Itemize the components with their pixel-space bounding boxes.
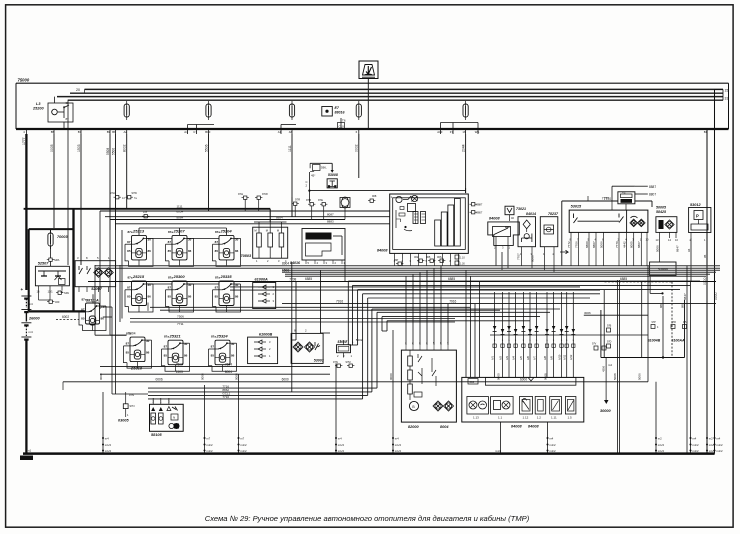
svg-text:86: 86 xyxy=(148,249,152,253)
connector pair under 53000 xyxy=(335,364,342,367)
svg-text:SPA: SPA xyxy=(54,258,60,262)
ground 30000 xyxy=(605,358,607,400)
svg-text:8054: 8054 xyxy=(177,210,184,214)
diode unit 58105 xyxy=(150,404,184,431)
svg-text:3006: 3006 xyxy=(584,311,591,315)
enclosure wire around 53015 xyxy=(562,200,618,202)
svg-text:86: 86 xyxy=(235,295,239,299)
svg-text:1.5: 1.5 xyxy=(568,416,573,420)
svg-text:30: 30 xyxy=(66,101,70,105)
wires 53015 pins up xyxy=(587,196,589,201)
svg-text:A/2: A/2 xyxy=(498,356,502,360)
svg-text:0005: 0005 xyxy=(50,144,54,152)
connector 03005 xyxy=(123,404,128,409)
svg-text:87: 87 xyxy=(164,345,168,349)
svg-text:6885: 6885 xyxy=(448,277,455,281)
svg-text:61000B: 61000B xyxy=(259,332,273,336)
wire from 52507 down xyxy=(38,290,40,300)
svg-text:53012: 53012 xyxy=(690,203,701,207)
svg-text:A/8: A/8 xyxy=(543,356,547,360)
connector SPA1 xyxy=(47,258,54,261)
svg-text:97R: 97R xyxy=(672,321,677,324)
svg-text:m2: m2 xyxy=(709,437,713,441)
svg-text:7916: 7916 xyxy=(336,299,343,303)
svg-text:m1/2: m1/2 xyxy=(105,443,112,447)
svg-text:2044: 2044 xyxy=(461,144,465,152)
svg-text:5506: 5506 xyxy=(204,144,208,152)
svg-text:31: 31 xyxy=(725,97,729,101)
relay 25335 xyxy=(213,274,241,312)
svg-text:87: 87 xyxy=(215,286,219,290)
svg-text:7772: 7772 xyxy=(567,241,571,248)
thick enclosure around 52507 cluster xyxy=(29,228,74,230)
svg-text:1.2: 1.2 xyxy=(537,416,542,420)
svg-text:84008: 84008 xyxy=(377,249,388,253)
svg-text:m1/2: m1/2 xyxy=(338,449,345,453)
svg-text:25213: 25213 xyxy=(132,229,145,234)
svg-text:38111A: 38111A xyxy=(86,299,99,303)
lamp 58425 xyxy=(665,220,674,229)
svg-text:7506: 7506 xyxy=(177,314,184,318)
left vertical pair x68 xyxy=(67,100,69,265)
relay row link wires xyxy=(94,265,96,335)
svg-text:25204: 25204 xyxy=(220,229,233,234)
unit 53000 small box xyxy=(659,238,661,262)
svg-text:78237: 78237 xyxy=(548,212,559,216)
svg-text:m1/2: m1/2 xyxy=(395,449,402,453)
fan symbol xyxy=(340,197,350,208)
svg-text:5500: 5500 xyxy=(111,148,115,155)
fuse 70003 xyxy=(48,230,53,249)
switch lamp cluster 52007 xyxy=(75,261,116,287)
svg-text:m4: m4 xyxy=(395,437,399,441)
svg-text:00S: 00S xyxy=(437,255,442,259)
svg-text:94: 94 xyxy=(687,248,691,252)
svg-text:7604: 7604 xyxy=(225,362,232,366)
wire 8002 from bus xyxy=(126,134,128,209)
wire 7904 row xyxy=(95,334,127,336)
svg-text:A/6: A/6 xyxy=(526,356,530,360)
socket 1.12 xyxy=(520,397,533,415)
svg-text:1.13: 1.13 xyxy=(473,416,479,420)
svg-text:20: 20 xyxy=(76,88,80,92)
svg-text:6000: 6000 xyxy=(282,378,289,382)
svg-text:97M: 97M xyxy=(346,360,351,364)
svg-text:B8: B8 xyxy=(112,130,116,134)
svg-text:86: 86 xyxy=(231,354,235,358)
svg-text:8884: 8884 xyxy=(276,215,283,219)
wires under bundle xyxy=(230,286,580,288)
svg-text:m4: m4 xyxy=(692,437,696,441)
svg-text:97W: 97W xyxy=(132,191,138,195)
svg-text:N: N xyxy=(173,416,175,420)
long vertical 296 xyxy=(295,282,297,341)
svg-text:53008: 53008 xyxy=(328,173,338,177)
svg-text:97B: 97B xyxy=(607,325,612,328)
fuse F3 on bus xyxy=(289,101,294,120)
svg-text:A/10: A/10 xyxy=(557,354,561,360)
svg-text:30: 30 xyxy=(146,339,150,343)
connector group 97H xyxy=(242,196,249,199)
svg-text:A10: A10 xyxy=(437,130,442,134)
svg-text:97H: 97H xyxy=(238,192,243,196)
svg-text:8887: 8887 xyxy=(649,185,656,189)
wires into connector left corner xyxy=(465,270,467,377)
svg-text:m1/2: m1/2 xyxy=(658,443,665,447)
wire 7916 xyxy=(282,303,716,305)
svg-text:97H: 97H xyxy=(110,191,115,195)
resistor module 70803 xyxy=(253,227,288,258)
main ground bus bottom xyxy=(23,452,715,455)
wire 6002 dashed xyxy=(56,319,79,321)
svg-text:50005: 50005 xyxy=(656,206,667,210)
svg-text:86: 86 xyxy=(188,249,192,253)
svg-text:1111: 1111 xyxy=(177,205,183,209)
svg-text:5006: 5006 xyxy=(655,245,659,252)
connector squares bottom left of block xyxy=(594,346,598,350)
long vertical 345 down xyxy=(344,260,346,282)
lamp 53015 b xyxy=(638,219,646,227)
main harness bundle center xyxy=(95,265,720,267)
wire 1503 from bus xyxy=(80,134,82,265)
svg-text:8008: 8008 xyxy=(531,255,535,262)
svg-text:SPA: SPA xyxy=(64,291,69,295)
svg-text:87: 87 xyxy=(215,240,219,244)
relay 25204 xyxy=(213,229,241,267)
svg-text:97E: 97E xyxy=(318,198,323,202)
svg-text:85: 85 xyxy=(126,351,130,355)
svg-text:16: 16 xyxy=(462,130,466,134)
svg-text:84008: 84008 xyxy=(528,425,539,429)
bus pin ticks and labels xyxy=(25,129,27,134)
wire column 292 to module xyxy=(291,197,293,217)
wire 358 stub xyxy=(358,134,360,140)
relay 25324 xyxy=(209,333,237,371)
wire 7506 7711 under row2 xyxy=(150,306,470,308)
connector group mid 295 xyxy=(292,202,299,205)
svg-text:30: 30 xyxy=(231,342,235,346)
82000 pin labels top xyxy=(405,345,407,350)
svg-text:7711: 7711 xyxy=(177,322,184,326)
svg-text:8807: 8807 xyxy=(637,241,641,248)
svg-text:53003: 53003 xyxy=(314,359,324,363)
bus rail 31 xyxy=(68,99,723,101)
svg-text:1503: 1503 xyxy=(176,370,183,374)
wire 0005 from bus xyxy=(53,134,55,228)
svg-text:25207: 25207 xyxy=(173,229,186,234)
lamp 53003 a xyxy=(293,342,303,352)
connector row under 84008 xyxy=(417,259,424,262)
svg-text:4306: 4306 xyxy=(602,365,606,372)
svg-text:82000: 82000 xyxy=(408,425,419,429)
connector STB small xyxy=(142,215,149,218)
wires 8887 8807 to x3 xyxy=(635,185,648,187)
wire branches bottom 82000 xyxy=(405,276,407,345)
svg-text:0008: 0008 xyxy=(543,373,547,380)
svg-text:58425: 58425 xyxy=(656,210,667,214)
svg-text:P: P xyxy=(696,214,699,219)
diode block 61000B xyxy=(248,337,278,364)
svg-text:8847: 8847 xyxy=(683,293,687,300)
svg-text:0000: 0000 xyxy=(714,292,718,300)
svg-text:7706: 7706 xyxy=(574,241,578,248)
svg-text:15: 15 xyxy=(725,89,729,93)
svg-text:7708: 7708 xyxy=(289,278,296,282)
svg-text:1506: 1506 xyxy=(282,268,289,272)
bus rail 30 xyxy=(85,88,724,90)
svg-text:7716: 7716 xyxy=(222,395,229,399)
svg-text:×3: ×3 xyxy=(622,190,626,194)
svg-text:m1/2: m1/2 xyxy=(716,443,723,447)
svg-text:m1/2: m1/2 xyxy=(240,443,247,447)
wires below sensors 84014 78237 xyxy=(521,252,523,266)
wire 7770 right xyxy=(611,201,613,210)
svg-text:87: 87 xyxy=(126,342,130,346)
unit x3 above 53015 xyxy=(618,192,635,204)
svg-text:87: 87 xyxy=(168,286,172,290)
verticals below 53015 to bundle xyxy=(570,238,572,266)
svg-text:0000: 0000 xyxy=(496,373,500,380)
svg-text:m1/2: m1/2 xyxy=(105,449,112,453)
svg-text:84008: 84008 xyxy=(511,425,522,429)
svg-text:30: 30 xyxy=(235,283,239,287)
svg-text:0006: 0006 xyxy=(156,378,163,382)
svg-text:6885: 6885 xyxy=(620,277,627,281)
lamp in 52007 right xyxy=(104,268,114,278)
svg-text:86: 86 xyxy=(148,295,152,299)
connector pair 8887 8807 right of 84008 xyxy=(470,203,477,206)
svg-text:A4: A4 xyxy=(184,130,188,134)
control unit 84008 main box xyxy=(390,194,469,253)
svg-text:A/5: A/5 xyxy=(519,356,523,360)
svg-text:T6: T6 xyxy=(342,119,346,123)
svg-text:m4: m4 xyxy=(716,437,720,441)
svg-text:m1/2: m1/2 xyxy=(692,443,699,447)
long vertical 291.8 xyxy=(291,262,293,392)
svg-text:5002: 5002 xyxy=(356,338,363,342)
lamp 53015 a xyxy=(630,219,638,227)
svg-text:25324: 25324 xyxy=(216,333,229,338)
svg-text:M: M xyxy=(255,229,257,233)
svg-text:M: M xyxy=(277,229,279,233)
svg-text:A/1: A/1 xyxy=(490,356,494,360)
svg-text:5008: 5008 xyxy=(613,373,617,380)
relay 25215 xyxy=(125,274,153,312)
wire elbow below 53000 xyxy=(649,276,651,294)
svg-text:0000: 0000 xyxy=(389,373,393,380)
82000 internals resistors xyxy=(408,356,413,366)
thick wire elbow into 38111A xyxy=(72,209,74,312)
fuse F5 on bus xyxy=(206,101,211,120)
svg-text:87: 87 xyxy=(127,240,131,244)
svg-text:86: 86 xyxy=(235,249,239,253)
svg-text:97N: 97N xyxy=(333,360,338,364)
wires 1111 8054 labels xyxy=(100,210,390,212)
svg-text:m1/2: m1/2 xyxy=(658,449,665,453)
switch 73021 xyxy=(505,206,514,215)
svg-text:F7: F7 xyxy=(450,130,454,134)
svg-text:+: + xyxy=(21,287,24,292)
tick T6 xyxy=(340,118,342,129)
svg-text:m7: m7 xyxy=(240,437,244,441)
svg-text:320: 320 xyxy=(55,300,60,304)
bus rail 15 xyxy=(57,96,723,98)
socket 1.11 xyxy=(550,397,562,415)
verticals center-left to relay rows xyxy=(109,230,111,335)
relay 25213 xyxy=(125,229,153,267)
svg-text:97D: 97D xyxy=(607,341,612,344)
wire 8884 xyxy=(110,219,345,221)
svg-text:8904: 8904 xyxy=(282,262,289,266)
svg-text:26000: 26000 xyxy=(28,317,40,321)
svg-text:m2: m2 xyxy=(658,437,662,441)
connector pair 97H4 97W7 left xyxy=(114,196,121,199)
svg-text:8002: 8002 xyxy=(123,144,127,152)
connector panel 84008 bottom xyxy=(462,377,584,422)
svg-text:85: 85 xyxy=(215,249,219,253)
svg-text:6100AA: 6100AA xyxy=(671,339,685,343)
relay 25300 xyxy=(166,274,194,312)
svg-text:B9: B9 xyxy=(107,130,111,134)
svg-text:85: 85 xyxy=(168,249,172,253)
84008 pin row xyxy=(394,253,396,258)
svg-text:005: 005 xyxy=(426,255,431,259)
svg-text:97N: 97N xyxy=(130,404,135,408)
connector 908 top xyxy=(368,199,375,202)
wires below 84008 to bundle xyxy=(394,259,396,266)
svg-text:85: 85 xyxy=(81,317,85,321)
wire 612 vertical xyxy=(611,186,613,201)
wire stub 97H verticals xyxy=(244,199,246,211)
svg-text:888: 888 xyxy=(680,303,684,308)
wires top of relays to bundle xyxy=(138,228,140,235)
svg-text:86: 86 xyxy=(146,351,150,355)
wire 2044 from bus xyxy=(465,134,467,193)
svg-text:7707: 7707 xyxy=(517,253,521,260)
sensor wire column with diodes xyxy=(494,292,496,377)
wire 3006 right of column xyxy=(584,314,648,316)
m-ticks bottom xyxy=(102,444,104,446)
wire right verticals 687-691 xyxy=(686,266,688,454)
fuse F4 on bus xyxy=(124,101,129,120)
wires below relay 84008b xyxy=(495,246,497,266)
svg-text:25321: 25321 xyxy=(169,333,182,338)
svg-text:6000: 6000 xyxy=(520,378,527,382)
thermo sensor 53008 xyxy=(310,162,332,164)
svg-text:87: 87 xyxy=(168,240,172,244)
fuse F7 on bus xyxy=(463,101,468,120)
long vertical 320.5 xyxy=(320,270,322,333)
svg-text:85: 85 xyxy=(168,295,172,299)
svg-text:8883: 8883 xyxy=(327,220,334,224)
svg-text:85: 85 xyxy=(215,295,219,299)
svg-text:Схема № 29: Ручное управление: Схема № 29: Ручное управление автономног… xyxy=(205,514,530,523)
svg-text:002: 002 xyxy=(414,255,419,259)
relay 25310 xyxy=(124,332,152,371)
svg-text:70803: 70803 xyxy=(241,254,252,258)
svg-text:0000: 0000 xyxy=(99,373,103,380)
battery feed wire left xyxy=(25,209,27,290)
svg-text:7770: 7770 xyxy=(615,241,619,248)
motor B in 82000 xyxy=(409,401,418,410)
wire 6885 xyxy=(88,281,716,283)
bus pin bracket left group xyxy=(188,124,215,126)
svg-text:A2: A2 xyxy=(124,130,128,134)
svg-text:85: 85 xyxy=(164,354,168,358)
svg-text:8800: 8800 xyxy=(585,241,589,248)
arrow mark right of 78237 xyxy=(560,250,568,254)
burner unit 82000 8004 box xyxy=(401,350,456,422)
svg-text:000: 000 xyxy=(470,380,475,384)
bus rail X xyxy=(70,92,723,94)
svg-text:03005: 03005 xyxy=(118,419,129,423)
svg-text:B7: B7 xyxy=(78,130,82,134)
svg-text:5006: 5006 xyxy=(638,373,642,380)
wire 1111 from bus xyxy=(291,134,293,217)
svg-text:8004: 8004 xyxy=(440,425,449,429)
svg-text:A1: A1 xyxy=(278,130,282,134)
svg-text:B5: B5 xyxy=(51,130,55,134)
svg-text:1.1: 1.1 xyxy=(498,416,503,420)
svg-text:8884: 8884 xyxy=(177,215,184,219)
connector SPA4 ECU marks xyxy=(56,291,63,294)
wire 5508 pair from bus xyxy=(109,134,111,230)
svg-text:m4: m4 xyxy=(105,437,109,441)
staircase elbow wires center xyxy=(348,280,700,282)
svg-text:7904: 7904 xyxy=(128,332,135,336)
svg-text:7916: 7916 xyxy=(449,299,456,303)
svg-text:6002: 6002 xyxy=(62,315,69,319)
svg-text:52507: 52507 xyxy=(38,262,49,266)
svg-text:85: 85 xyxy=(127,249,131,253)
svg-text:30: 30 xyxy=(184,342,188,346)
wire 5506 from bus xyxy=(208,134,210,211)
svg-text:87a: 87a xyxy=(82,298,87,302)
socket 1.13 xyxy=(467,397,489,415)
svg-text:m1: m1 xyxy=(27,449,31,453)
svg-text:m4: m4 xyxy=(29,330,33,334)
wire from x3 down xyxy=(625,204,627,210)
svg-text:85: 85 xyxy=(127,295,131,299)
vertical wires through block xyxy=(603,290,605,358)
svg-text:B10: B10 xyxy=(205,130,210,134)
svg-text:87: 87 xyxy=(66,117,70,121)
svg-text:m1/2: m1/2 xyxy=(549,449,556,453)
svg-text:8005: 8005 xyxy=(630,241,634,248)
svg-text:A/7: A/7 xyxy=(532,356,536,360)
svg-text:97B: 97B xyxy=(306,198,311,202)
lamp switch box 53003 xyxy=(291,333,323,363)
wire 648 vertical xyxy=(647,266,649,382)
diode block 61000A xyxy=(253,283,276,309)
svg-text:1.11: 1.11 xyxy=(551,416,557,420)
svg-text:8087: 8087 xyxy=(327,213,334,217)
svg-text:m1/2: m1/2 xyxy=(338,443,345,447)
lamp in 52007 left xyxy=(94,268,104,278)
svg-text:A/4: A/4 xyxy=(511,356,515,360)
svg-text:8847: 8847 xyxy=(676,245,680,252)
svg-text:6885: 6885 xyxy=(305,277,312,281)
ground wires to bottom bus xyxy=(102,392,104,454)
svg-text:25215: 25215 xyxy=(132,274,145,279)
relay 25321 xyxy=(162,333,190,371)
svg-text:8807: 8807 xyxy=(649,193,656,197)
lamp 53003 b xyxy=(305,342,315,352)
sensor E7 88016 in bus xyxy=(322,107,333,117)
connector squares in block xyxy=(607,328,611,332)
svg-text:m7: m7 xyxy=(206,437,210,441)
svg-text:86: 86 xyxy=(188,295,192,299)
